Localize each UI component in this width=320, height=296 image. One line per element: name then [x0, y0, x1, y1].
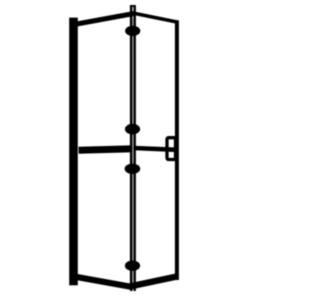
- center pole: [130, 5, 136, 291]
- right crossbar: [134, 148, 177, 150]
- left vertical bar: [69, 18, 78, 286]
- hinge knobs: [125, 26, 140, 36]
- handle: [167, 138, 176, 160]
- right vertical bar: [175, 20, 179, 280]
- top-right rail: [132, 13, 177, 22]
- bottom-right rail: [132, 277, 177, 287]
- left crossbar: [79, 149, 132, 150]
- bottom-left rail: [75, 277, 133, 287]
- top-left rail: [76, 14, 133, 24]
